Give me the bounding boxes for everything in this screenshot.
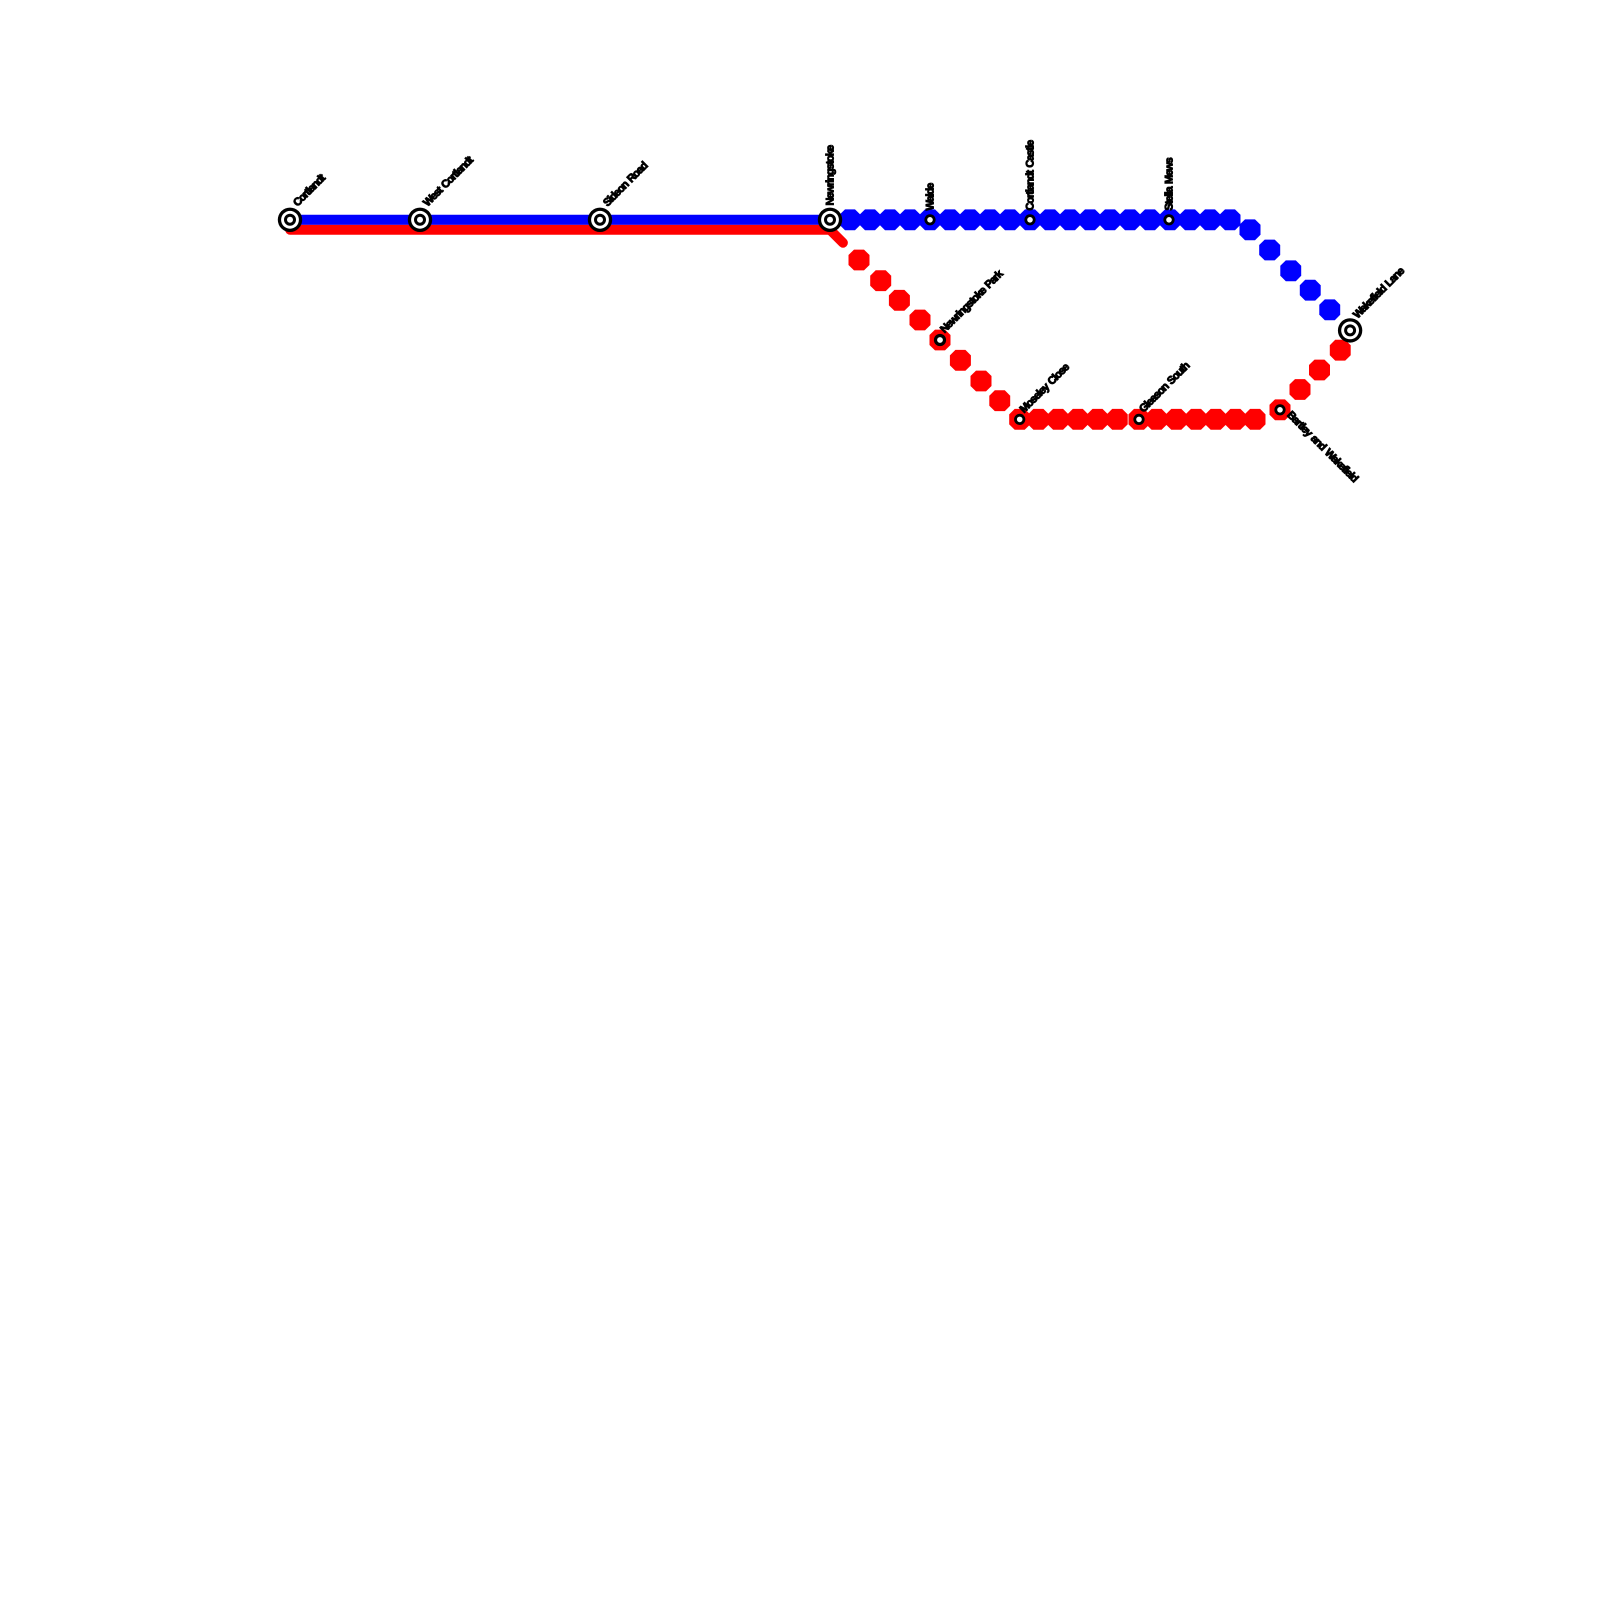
station marker Bartley and Wakefield <box>1274 404 1285 415</box>
station marker Newringstoke Park <box>934 334 946 346</box>
station marker Walde <box>924 214 935 225</box>
svg-text:Newringstoke: Newringstoke <box>825 145 837 205</box>
station marker Moseley Close <box>1014 414 1025 425</box>
wire: red line solid segment Cortlandt-Newringstoke <box>290 225 830 235</box>
svg-text:Cortlandt Castle: Cortlandt Castle <box>1025 140 1037 210</box>
station marker Stella Mews <box>1163 214 1174 225</box>
station terminus marker Cortlandt <box>278 208 302 232</box>
station marker Gleason South <box>1133 414 1144 425</box>
station terminus marker Newringstoke <box>818 208 842 232</box>
wire: blue line solid segment Cortlandt-Newringstoke <box>290 215 830 225</box>
wire: red line dotted segment Newringstoke-Wakefield Lane via south loop <box>849 250 1351 430</box>
wire: blue line dotted segment Newringstoke-Wakefield Lane <box>840 209 1341 320</box>
station terminus marker Wakefield Lane <box>1338 318 1362 342</box>
station marker Cortlandt Castle <box>1024 214 1035 225</box>
station terminus marker West Cortlandt <box>408 208 432 232</box>
svg-text:Walde: Walde <box>925 183 937 211</box>
wire: red line stub at Newringstoke <box>830 230 843 243</box>
station terminus marker Sideon Road <box>588 208 612 232</box>
svg-text:Stella Mews: Stella Mews <box>1164 157 1176 210</box>
